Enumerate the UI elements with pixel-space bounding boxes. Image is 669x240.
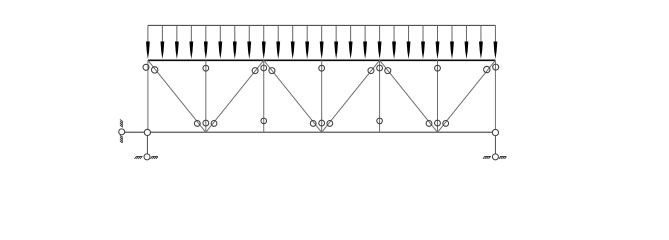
load arrow 10 bbox=[276, 25, 280, 59]
hinge: top-left node, vertical member end bbox=[143, 64, 149, 70]
diagonal member D2 bbox=[206, 60, 264, 132]
load arrow 2 bbox=[160, 25, 164, 59]
load arrow 17 bbox=[378, 25, 382, 59]
load arrow 1 bbox=[146, 25, 150, 59]
load arrow 6 bbox=[218, 25, 222, 59]
left support: vertical link hinge circle bbox=[144, 154, 150, 160]
load arrow 9 bbox=[262, 25, 266, 59]
vertical member V4 bbox=[321, 60, 323, 132]
vertical member V3 bbox=[263, 60, 265, 132]
hinge: bottom node 3, vertical V3 end bbox=[261, 118, 267, 124]
vertical member V7 bbox=[494, 60, 496, 132]
load arrow 15 bbox=[349, 25, 353, 59]
hinge: top node 5, diagonal D5 end bbox=[385, 68, 391, 74]
load arrow 24 bbox=[479, 25, 483, 59]
hinge: top node 4, vertical V4 end bbox=[319, 65, 325, 71]
load arrow 7 bbox=[233, 25, 237, 59]
load arrow 21 bbox=[436, 25, 440, 59]
hinge: bottom node 6, diagonal D5 end bbox=[426, 121, 432, 127]
load arrow 13 bbox=[320, 25, 324, 59]
right support: vertical link hinge circle bbox=[492, 154, 498, 160]
left support: horizontal link ground hatching bbox=[120, 119, 122, 142]
hinge: top node 5, vertical V5 end bbox=[377, 65, 383, 71]
right support: node pin circle bbox=[492, 129, 498, 135]
hinge: bottom node 2, diagonal D2 end bbox=[211, 121, 217, 127]
load arrow 18 bbox=[392, 25, 396, 59]
hinge: bottom node 5, vertical V5 end bbox=[377, 118, 383, 124]
diagonal member D4 bbox=[322, 60, 380, 132]
right support: vertical link ground hatching bbox=[483, 157, 506, 159]
bottom chord member bbox=[122, 131, 496, 133]
hinge: bottom node 4, vertical V4 end bbox=[319, 120, 325, 126]
diagonal member D5 bbox=[380, 60, 438, 132]
load arrow 12 bbox=[305, 25, 309, 59]
load arrow 23 bbox=[465, 25, 469, 59]
vertical member V1 bbox=[147, 60, 149, 132]
right support: vertical link bar bbox=[494, 132, 496, 157]
distributed load arrows bbox=[146, 25, 497, 59]
load arrow 19 bbox=[407, 25, 411, 59]
hinge: top node 6, vertical V6 end bbox=[435, 65, 441, 71]
hinge: bottom node 2, diagonal D1 end bbox=[194, 121, 200, 127]
hinge: top node 2, vertical V2 end bbox=[203, 65, 209, 71]
vertical member V2 bbox=[205, 60, 207, 132]
load arrow 22 bbox=[450, 25, 454, 59]
left support: node pin circle bbox=[144, 129, 150, 135]
hinge: top node 3, diagonal D3 end bbox=[269, 68, 275, 74]
load arrow 8 bbox=[247, 25, 251, 59]
diagonal member D3 bbox=[264, 60, 322, 132]
load arrow 3 bbox=[175, 25, 179, 59]
load arrow 14 bbox=[334, 25, 338, 59]
hinge: bottom node 6, vertical V6 end bbox=[435, 120, 441, 126]
diagonal member D1 bbox=[148, 60, 206, 132]
load arrow 16 bbox=[363, 25, 367, 59]
hinge: bottom node 6, diagonal D6 end bbox=[443, 121, 449, 127]
hinge: top node 3, vertical V3 end bbox=[261, 65, 267, 71]
hinge: top-right node, vertical V7 end bbox=[493, 64, 499, 70]
left support: horizontal link hinge circle bbox=[119, 129, 125, 135]
hinge: top node 5, diagonal D4 end bbox=[368, 68, 374, 74]
hinge: bottom node 4, diagonal D3 end bbox=[310, 121, 316, 127]
load arrow 11 bbox=[291, 25, 295, 59]
vertical member V5 bbox=[379, 60, 381, 132]
left support: vertical link bar bbox=[146, 132, 148, 157]
hinge: bottom node 4, diagonal D4 end bbox=[327, 121, 333, 127]
hinge: bottom node 2, vertical V2 end bbox=[203, 120, 209, 126]
load arrow 5 bbox=[204, 25, 208, 59]
diagonal member D6 bbox=[438, 60, 496, 132]
distributed load: top reference line bbox=[148, 24, 496, 26]
hinge: top-left node, diagonal D1 end bbox=[152, 67, 158, 73]
left support: vertical link ground hatching bbox=[135, 157, 158, 159]
vertical member V6 bbox=[437, 60, 439, 132]
load arrow 25 bbox=[494, 25, 498, 59]
load arrow 4 bbox=[189, 25, 193, 59]
hinge: top-right node, diagonal D6 end bbox=[484, 66, 490, 72]
hinge: top node 3, diagonal D2 end bbox=[252, 68, 258, 74]
top chord member (beam) bbox=[148, 59, 496, 61]
load arrow 20 bbox=[421, 25, 425, 59]
